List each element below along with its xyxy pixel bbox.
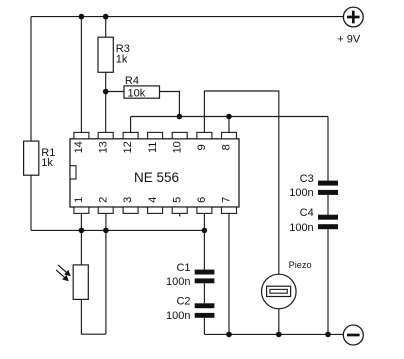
node C4 at bottom rail bbox=[325, 332, 331, 338]
svg-text:100n: 100n bbox=[289, 187, 313, 199]
svg-text:6: 6 bbox=[196, 197, 208, 203]
pin stub 2 bbox=[98, 207, 113, 213]
node pin8 at control line bbox=[226, 114, 232, 120]
svg-text:7: 7 bbox=[221, 197, 233, 203]
pin stub 12 bbox=[123, 132, 138, 138]
wire pin 12 up bbox=[130, 117, 132, 133]
wire C1 to C2 bbox=[203, 283, 205, 303]
capacitor C2 bbox=[195, 303, 215, 318]
svg-text:100n: 100n bbox=[166, 310, 190, 322]
piezo transducer BZ1 bbox=[262, 274, 297, 309]
svg-text:NE 556: NE 556 bbox=[134, 170, 179, 185]
wire pin 14 to supply rail bbox=[80, 17, 82, 133]
pin stub 5 bbox=[172, 207, 187, 213]
svg-text:R4: R4 bbox=[125, 75, 139, 87]
wire R3 top to supply rail bbox=[105, 17, 107, 38]
svg-text:100n: 100n bbox=[289, 222, 313, 234]
node pin7 at bottom rail bbox=[226, 332, 232, 338]
svg-text:9: 9 bbox=[196, 144, 208, 150]
IC U1 NE 556 body bbox=[70, 139, 239, 207]
wire pin 6 down through C1 C2 bbox=[203, 214, 205, 270]
wire top supply rail bbox=[31, 16, 343, 18]
svg-text:C3: C3 bbox=[300, 173, 314, 185]
svg-text:2: 2 bbox=[98, 197, 110, 203]
pin stub 3 bbox=[123, 207, 138, 213]
svg-text:1k: 1k bbox=[116, 54, 128, 66]
wire C4 to bottom rail bbox=[327, 229, 329, 334]
capacitor C3 bbox=[318, 181, 338, 195]
capacitor C4 bbox=[318, 215, 338, 230]
svg-text:C1: C1 bbox=[176, 262, 190, 274]
wire R3 bottom to pin 13 bbox=[105, 72, 107, 132]
svg-text:11: 11 bbox=[147, 142, 159, 153]
IC notch marker bbox=[70, 166, 76, 179]
wire pin 2 down bbox=[105, 214, 107, 335]
node pin1 at mid rail bbox=[79, 228, 85, 234]
resistor R1 bbox=[24, 141, 39, 175]
wire control line pin12 to C3 branch bbox=[131, 116, 328, 118]
minus battery terminal bbox=[343, 325, 363, 345]
+9V battery terminal bbox=[343, 7, 363, 27]
svg-text:C4: C4 bbox=[300, 207, 314, 219]
pin stub 11 bbox=[148, 132, 163, 138]
svg-text:8: 8 bbox=[221, 144, 233, 150]
wire pin 7 down to bottom rail bbox=[228, 214, 230, 335]
pin stub 13 bbox=[98, 132, 113, 138]
LDR light arrow 2 bbox=[56, 270, 68, 281]
node pin14 at supply rail bbox=[79, 14, 85, 20]
wire pin 8 up to control line bbox=[228, 117, 230, 133]
svg-text:C2: C2 bbox=[176, 295, 190, 307]
pin stub 4 bbox=[148, 207, 163, 213]
pin stub 7 bbox=[222, 207, 237, 213]
pin stub 9 bbox=[197, 132, 212, 138]
wire piezo to bottom rail bbox=[278, 309, 280, 335]
svg-text:Piezo: Piezo bbox=[289, 260, 312, 270]
LDR R2 body bbox=[73, 265, 88, 300]
wire C2 to bottom rail bbox=[203, 318, 205, 335]
wire left branch from rail to R1 bbox=[30, 17, 32, 142]
node R3/R4 junction bbox=[103, 89, 109, 95]
wire R4 right down to control line bbox=[160, 92, 180, 117]
pin stub 6 bbox=[197, 207, 212, 213]
node R4 at control line bbox=[177, 114, 183, 120]
resistor R3 bbox=[98, 37, 113, 72]
wire C3 to C4 bbox=[327, 195, 329, 215]
svg-text:+ 9V: + 9V bbox=[337, 34, 361, 46]
svg-text:5: 5 bbox=[171, 197, 183, 203]
node R3 at supply rail bbox=[103, 14, 109, 20]
wire pin 9 over to piezo bbox=[204, 91, 278, 274]
svg-text:1: 1 bbox=[73, 197, 85, 203]
wire mid rail (pins 1-2-6) bbox=[31, 229, 204, 231]
pin stub 14 bbox=[74, 132, 89, 138]
svg-text:3: 3 bbox=[122, 197, 134, 203]
svg-text:1k: 1k bbox=[41, 157, 53, 169]
svg-text:10: 10 bbox=[171, 141, 183, 153]
node pin2 at mid rail bbox=[103, 228, 109, 234]
node piezo at bottom rail bbox=[276, 332, 282, 338]
pin stub 1 bbox=[74, 207, 89, 213]
pin stub 10 bbox=[172, 132, 187, 138]
wire bottom ground rail bbox=[204, 333, 343, 335]
svg-text:13: 13 bbox=[98, 141, 110, 153]
svg-text:14: 14 bbox=[73, 141, 85, 153]
svg-text:12: 12 bbox=[122, 141, 134, 153]
resistor R4 bbox=[124, 86, 160, 98]
node pin6 at mid rail bbox=[202, 228, 208, 234]
LDR light arrow 1 bbox=[58, 265, 70, 276]
svg-text:100n: 100n bbox=[166, 276, 190, 288]
wire LDR bottom loop bbox=[81, 299, 106, 334]
capacitor C1 bbox=[195, 270, 215, 284]
pin stub 8 bbox=[222, 132, 237, 138]
wire control line down to C3 bbox=[327, 117, 329, 181]
wire pin 5 stub tick bbox=[179, 214, 181, 217]
svg-text:4: 4 bbox=[147, 197, 159, 203]
svg-text:10k: 10k bbox=[128, 87, 146, 99]
wire R4 left bbox=[106, 91, 124, 93]
wire pin 1 down to LDR bbox=[80, 214, 82, 265]
wire R1 bottom to mid rail bbox=[30, 175, 32, 230]
